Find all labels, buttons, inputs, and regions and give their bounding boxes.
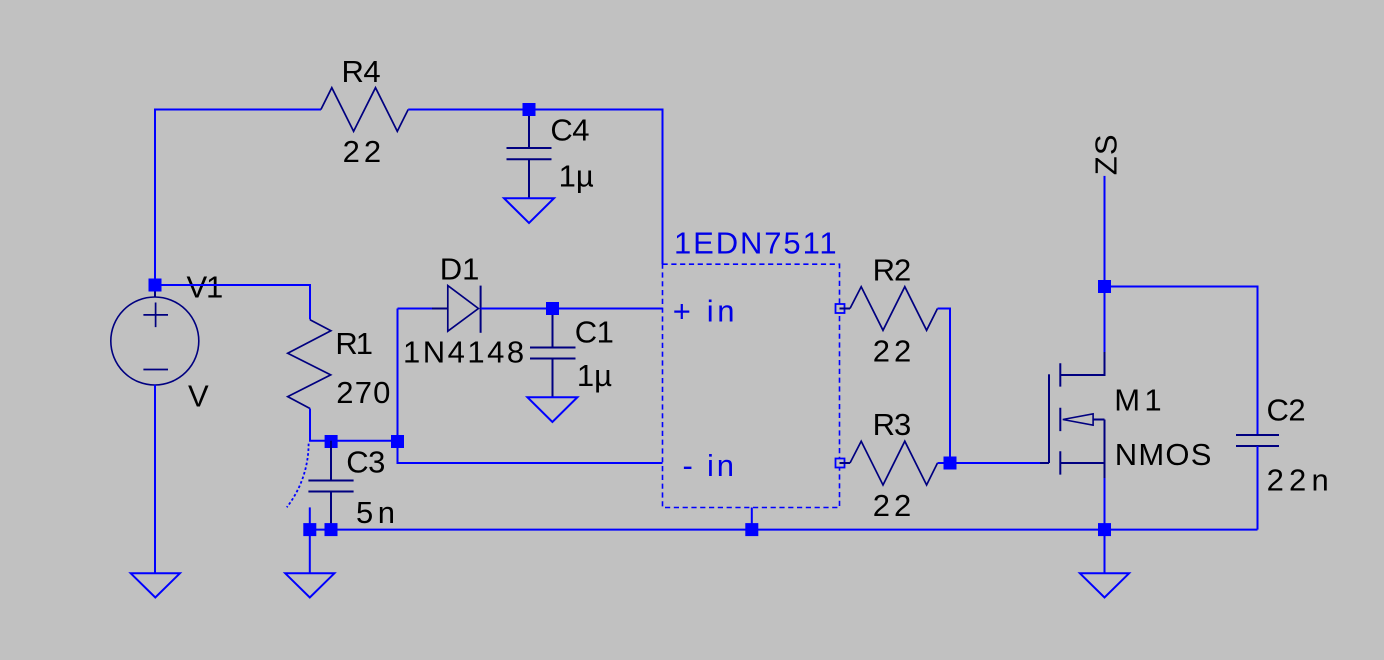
junction node stub/bus — [303, 523, 316, 536]
svg-text:+ in: + in — [673, 294, 738, 329]
junction node C3 top — [325, 435, 338, 448]
svg-text:R1: R1 — [335, 326, 371, 361]
junction node C3 bottom/bus — [325, 523, 338, 536]
label R3 refdes — [873, 407, 911, 442]
label R3 value 22 — [873, 488, 915, 523]
label U1 device 1EDN7511 — [674, 226, 839, 261]
label C2 refdes — [1267, 393, 1306, 428]
wire R4 right to C4 node — [408, 109, 529, 111]
ground under C3 bus — [285, 573, 334, 597]
wire top-left vertical from V1 node to top rail — [155, 110, 321, 286]
junction node at C4 top — [523, 103, 536, 116]
label C1 value 1u — [577, 358, 612, 393]
capacitor C2 — [1236, 435, 1279, 446]
capacitor C4 — [507, 110, 552, 199]
wire drain node to C2 top — [1105, 287, 1258, 436]
label M1 value NMOS — [1115, 437, 1213, 472]
wire gate — [950, 462, 1040, 464]
svg-text:M1: M1 — [1114, 383, 1165, 418]
label D1 refdes — [440, 252, 480, 287]
svg-text:C4: C4 — [550, 113, 589, 148]
svg-text:C2: C2 — [1267, 393, 1306, 428]
wire ZS to drain node — [1104, 176, 1106, 287]
svg-text:1EDN7511: 1EDN7511 — [674, 226, 839, 261]
net label ZS — [1089, 133, 1124, 175]
svg-text:C3: C3 — [346, 445, 385, 480]
svg-text:V: V — [188, 379, 210, 414]
svg-text:1µ: 1µ — [577, 358, 612, 393]
junction node source/bus — [1098, 523, 1111, 536]
label R4 refdes — [342, 54, 381, 89]
wire C1 node to IC plus-in — [553, 308, 663, 310]
label V1 refdes — [187, 270, 223, 305]
junction node IC/bus — [745, 523, 758, 536]
resistor R3 — [840, 441, 938, 485]
wire D1 anode down to minus-in row — [398, 309, 663, 464]
wire V1 node to R1 top — [155, 285, 310, 320]
diode D1 — [430, 286, 481, 333]
transistor M1 NMOS — [1040, 352, 1105, 480]
label C3 refdes — [346, 445, 385, 480]
label M1 refdes — [1114, 383, 1165, 418]
svg-text:R4: R4 — [342, 54, 381, 89]
wire bus to ground below C3 — [309, 530, 311, 574]
junction node R2/R3 — [944, 457, 957, 470]
svg-text:C1: C1 — [575, 315, 614, 350]
IC U1 1EDN7511 dashed box — [663, 264, 840, 507]
dashed arc marking left of C3 — [287, 444, 309, 508]
svg-text:V1: V1 — [187, 270, 223, 305]
junction node drain — [1098, 280, 1111, 293]
capacitor C3 — [308, 441, 353, 530]
svg-text:22n: 22n — [1267, 463, 1334, 498]
ground under M1 — [1080, 573, 1129, 597]
svg-text:R2: R2 — [873, 253, 911, 288]
wire drain node down — [1104, 287, 1106, 353]
svg-text:ZS: ZS — [1089, 133, 1124, 175]
resistor R1 — [288, 320, 331, 409]
label U1 pin + in — [673, 294, 738, 329]
ground under C1 — [527, 397, 577, 422]
label R1 refdes — [335, 326, 371, 361]
label U1 pin - in — [683, 448, 737, 483]
label C3 value 5n — [356, 495, 399, 530]
wire source to bus — [1104, 478, 1106, 530]
svg-text:R3: R3 — [873, 407, 911, 442]
junction node at V1 top — [149, 279, 162, 292]
label D1 value 1N4148 — [403, 335, 527, 370]
capacitor C1 — [530, 309, 576, 398]
svg-text:5n: 5n — [356, 495, 399, 530]
label R4 value 22 — [343, 134, 385, 169]
svg-text:D1: D1 — [440, 252, 480, 287]
junction node D1 branch — [391, 435, 404, 448]
label C4 value 1u — [559, 159, 594, 194]
wire C2 bottom to bus — [1257, 446, 1259, 530]
label R2 refdes — [873, 253, 911, 288]
ground under C4 — [504, 198, 554, 223]
wire IC bottom pin to bus — [751, 508, 753, 530]
wire R3 out to junction — [938, 462, 951, 464]
svg-text:1µ: 1µ — [559, 159, 594, 194]
bottom bus wire — [310, 529, 1258, 531]
wire bus to ground under M1 — [1104, 530, 1106, 574]
voltage source V1 — [111, 285, 199, 390]
label C1 refdes — [575, 315, 614, 350]
wire D1 cathode to C1 node — [481, 308, 553, 310]
svg-text:22: 22 — [873, 488, 915, 523]
svg-text:- in: - in — [683, 448, 737, 483]
pin square minus-out — [836, 459, 845, 468]
pin square plus-out — [836, 304, 845, 313]
resistor R2 — [840, 287, 938, 331]
stub above bus left — [309, 507, 311, 529]
wire R1 bottom to C3 row — [310, 409, 398, 441]
svg-text:22: 22 — [873, 334, 915, 369]
label R1 value 270 — [336, 375, 391, 410]
wire V1 bottom to ground — [154, 385, 156, 574]
svg-text:NMOS: NMOS — [1115, 437, 1213, 472]
svg-text:270: 270 — [336, 375, 391, 410]
label C4 refdes — [550, 113, 589, 148]
wire R2 out to junction column — [938, 309, 951, 464]
wire D1 anode lead — [398, 308, 433, 310]
label C2 value 22n — [1267, 463, 1334, 498]
junction node C1 top — [546, 302, 559, 315]
resistor R4 — [321, 88, 408, 132]
svg-text:1N4148: 1N4148 — [403, 335, 527, 370]
label V1 value V — [188, 379, 210, 414]
label R2 value 22 — [873, 334, 915, 369]
svg-text:22: 22 — [343, 134, 385, 169]
ground under V1 — [131, 573, 180, 597]
wire C4 node to IC top pin — [529, 110, 663, 265]
